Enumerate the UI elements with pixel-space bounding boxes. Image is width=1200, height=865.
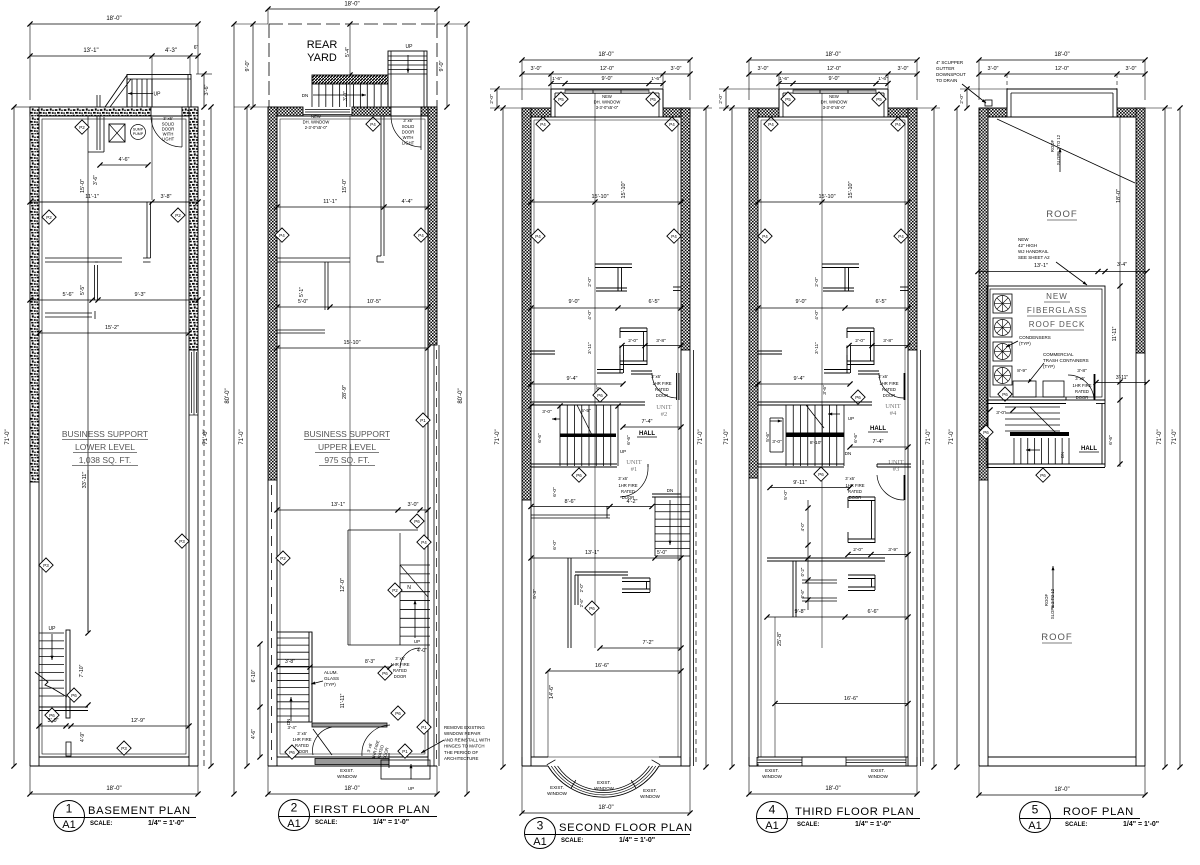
svg-text:18'-0": 18'-0" — [344, 2, 359, 8]
partition stub — [146, 202, 148, 258]
right dimension 71'-0" — [705, 108, 707, 767]
svg-text:15'-10": 15'-10" — [343, 340, 360, 346]
svg-text:9'-11": 9'-11" — [793, 480, 807, 486]
svg-text:13'-1": 13'-1" — [331, 502, 345, 508]
svg-text:WINDOW: WINDOW — [547, 791, 567, 796]
svg-text:P2: P2 — [392, 588, 398, 593]
svg-text:A1: A1 — [1028, 820, 1041, 832]
svg-text:P1: P1 — [402, 749, 408, 754]
svg-text:13'-1": 13'-1" — [83, 48, 98, 54]
svg-text:1,038 SQ. FT.: 1,038 SQ. FT. — [79, 455, 131, 465]
svg-text:9'-8": 9'-8" — [795, 609, 806, 615]
svg-text:NEW: NEW — [311, 114, 321, 119]
svg-text:71'-0": 71'-0" — [949, 429, 955, 444]
bottom windows — [757, 759, 802, 764]
title block BASEMENT PLAN — [54, 801, 197, 832]
svg-text:3'-0": 3'-0" — [542, 409, 552, 415]
svg-text:18'-0": 18'-0" — [344, 786, 359, 792]
svg-text:P6: P6 — [71, 693, 77, 698]
svg-text:5'-6": 5'-6" — [765, 432, 771, 442]
svg-text:P4: P4 — [762, 234, 768, 239]
svg-text:FIBERGLASS: FIBERGLASS — [1027, 306, 1087, 315]
partition vertical p4 — [792, 561, 794, 617]
svg-text:5'-0": 5'-0" — [657, 550, 667, 556]
svg-text:5'-1": 5'-1" — [299, 287, 305, 297]
svg-text:UP: UP — [620, 449, 626, 454]
svg-text:RATED: RATED — [882, 387, 896, 392]
svg-text:4: 4 — [769, 803, 776, 817]
svg-text:SCALE:: SCALE: — [315, 820, 337, 826]
svg-text:ROOF: ROOF — [1044, 594, 1049, 607]
right wall — [189, 107, 198, 350]
svg-text:UNIT: UNIT — [626, 459, 642, 466]
svg-text:ROOF DECK: ROOF DECK — [1029, 320, 1086, 329]
top wall hatched — [522, 108, 551, 117]
svg-text:UP: UP — [414, 639, 420, 644]
svg-text:WINDOW: WINDOW — [640, 794, 660, 799]
svg-text:A1: A1 — [533, 836, 546, 848]
svg-text:2'-0": 2'-0" — [853, 547, 863, 553]
center line — [821, 93, 823, 648]
svg-text:18'-0": 18'-0" — [598, 52, 613, 58]
sump pump closet — [109, 124, 125, 142]
svg-text:18'-0": 18'-0" — [598, 805, 613, 811]
svg-text:SCALE:: SCALE: — [561, 838, 583, 844]
svg-text:COMMERCIAL: COMMERCIAL — [1043, 352, 1074, 357]
svg-text:71'-0": 71'-0" — [5, 429, 11, 444]
svg-text:REAR: REAR — [307, 39, 338, 51]
svg-text:5'-6": 5'-6" — [63, 292, 74, 298]
svg-text:UPPER LEVEL: UPPER LEVEL — [318, 442, 376, 452]
svg-text:P2: P2 — [280, 556, 286, 561]
svg-text:3'-0": 3'-0" — [758, 66, 769, 72]
svg-text:N: N — [407, 585, 411, 591]
svg-text:3'-9": 3'-9" — [888, 547, 898, 553]
svg-text:6'-10": 6'-10" — [251, 669, 257, 682]
closet C — [847, 327, 874, 329]
svg-text:1HR FIRE: 1HR FIRE — [879, 381, 898, 386]
svg-text:SLOPE 2 TO 12: SLOPE 2 TO 12 — [1050, 588, 1055, 619]
svg-text:15'-0": 15'-0" — [80, 179, 86, 193]
svg-text:HALL: HALL — [639, 431, 655, 437]
svg-text:#2: #2 — [661, 411, 668, 418]
top wall hatched — [30, 107, 151, 116]
inner face — [988, 116, 1136, 118]
svg-text:DN: DN — [667, 488, 674, 493]
top wall hatched — [268, 107, 303, 116]
basement plan — [5, 16, 214, 797]
right wall hatched — [1136, 108, 1145, 353]
svg-text:GUTTER: GUTTER — [936, 66, 955, 71]
svg-text:12'-9": 12'-9" — [131, 718, 145, 724]
door arc top — [151, 116, 182, 147]
svg-text:P6: P6 — [983, 430, 989, 435]
inner wall line — [42, 119, 186, 754]
svg-text:3'-0": 3'-0" — [988, 66, 999, 72]
left dimension 71'-0" — [731, 108, 733, 767]
svg-text:WINDOW REPAIR: WINDOW REPAIR — [444, 731, 481, 736]
svg-text:RATED: RATED — [1075, 389, 1089, 394]
new window top — [305, 109, 350, 111]
title block ROOF PLAN — [1020, 802, 1160, 833]
svg-text:P4: P4 — [898, 234, 904, 239]
fire door upper — [858, 370, 879, 372]
dimension 2'-0" left — [496, 89, 498, 108]
svg-text:80'-0": 80'-0" — [225, 388, 231, 403]
svg-text:(TYP): (TYP) — [324, 682, 336, 687]
svg-text:3'-8": 3'-8" — [656, 338, 666, 344]
first floor plan — [225, 2, 490, 797]
svg-text:EXIST.: EXIST. — [597, 780, 611, 785]
svg-text:P2: P2 — [79, 125, 85, 130]
svg-text:1: 1 — [66, 802, 73, 816]
svg-text:3'-0": 3'-0" — [343, 91, 349, 101]
svg-text:18'-0": 18'-0" — [1054, 52, 1069, 58]
door right fire rotated — [362, 725, 390, 756]
svg-text:3'-0": 3'-0" — [772, 439, 782, 445]
door left fire — [313, 727, 332, 755]
svg-text:NEW: NEW — [602, 94, 612, 99]
svg-text:3'-6": 3'-6" — [204, 84, 210, 95]
svg-text:71'-0": 71'-0" — [1157, 429, 1163, 444]
svg-text:P6: P6 — [382, 671, 388, 676]
svg-text:3' x6': 3' x6' — [163, 116, 173, 121]
roof raised parapet — [1007, 88, 1117, 90]
hall stair — [1005, 406, 1060, 408]
door arc top — [391, 116, 421, 147]
svg-text:2'-0": 2'-0" — [579, 583, 584, 592]
svg-text:UNIT: UNIT — [885, 403, 901, 410]
svg-text:ROOF: ROOF — [1046, 209, 1077, 220]
lower roof slope arrow — [1052, 566, 1054, 608]
svg-text:2'-0": 2'-0" — [855, 338, 865, 344]
title block SECOND FLOOR PLAN — [525, 818, 693, 849]
svg-text:9'-4": 9'-4" — [794, 376, 805, 382]
svg-text:P4: P4 — [768, 122, 774, 127]
partition lower — [767, 557, 885, 559]
svg-text:11'-1": 11'-1" — [85, 194, 99, 200]
svg-text:P4: P4 — [540, 122, 546, 127]
svg-text:11'-11": 11'-11" — [1112, 326, 1118, 341]
svg-text:975 SQ. FT.: 975 SQ. FT. — [324, 455, 369, 465]
svg-text:P3: P3 — [121, 746, 127, 751]
svg-text:SCALE:: SCALE: — [90, 821, 112, 827]
svg-text:P3: P3 — [179, 539, 185, 544]
svg-text:71'-0": 71'-0" — [698, 429, 704, 444]
svg-text:3' x6': 3' x6' — [845, 476, 855, 481]
svg-text:ROOF PLAN: ROOF PLAN — [1063, 806, 1134, 818]
svg-text:18'-0": 18'-0" — [1116, 189, 1122, 203]
svg-text:HALL: HALL — [870, 426, 886, 432]
svg-text:6'-5": 6'-5" — [876, 299, 887, 305]
svg-text:RATED: RATED — [393, 668, 407, 673]
svg-text:3' x6': 3' x6' — [878, 374, 888, 379]
svg-text:PUMP: PUMP — [133, 132, 144, 136]
svg-text:28'-9": 28'-9" — [342, 385, 348, 399]
svg-text:6'-6": 6'-6" — [537, 433, 543, 443]
svg-text:4'-0": 4'-0" — [800, 522, 805, 531]
entry stair top — [127, 75, 191, 108]
left dimension 71'-0" — [502, 108, 504, 767]
svg-text:DH. WINDOW: DH. WINDOW — [821, 100, 848, 105]
svg-text:ALUM.: ALUM. — [324, 670, 338, 675]
stair hall — [559, 405, 561, 466]
hall top wall — [758, 401, 872, 403]
svg-text:EXIST.: EXIST. — [550, 785, 564, 790]
svg-text:3' x6': 3' x6' — [1075, 376, 1085, 381]
svg-text:UNIT: UNIT — [888, 459, 904, 466]
svg-text:3'-0": 3'-0" — [48, 718, 59, 724]
svg-text:16'-6": 16'-6" — [595, 663, 609, 669]
svg-text:9'-0": 9'-0" — [569, 299, 580, 305]
svg-text:3'-0": 3'-0" — [408, 502, 419, 508]
svg-text:4'-0": 4'-0" — [417, 648, 427, 654]
bottom wall — [749, 765, 917, 767]
svg-text:2-3'-0"x5'-0": 2-3'-0"x5'-0" — [305, 125, 328, 130]
svg-text:FIRST FLOOR PLAN: FIRST FLOOR PLAN — [313, 804, 430, 816]
svg-text:4'-9": 4'-9" — [80, 732, 86, 742]
closet C 3 — [848, 574, 875, 576]
svg-text:P6: P6 — [414, 519, 420, 524]
roof plan — [936, 52, 1183, 798]
svg-text:4'-0": 4'-0" — [814, 310, 820, 320]
title block FIRST FLOOR PLAN — [279, 800, 438, 831]
svg-text:12'-0": 12'-0" — [1055, 66, 1069, 72]
svg-text:WINDOW: WINDOW — [762, 774, 782, 779]
svg-text:7'-4": 7'-4" — [642, 419, 653, 425]
stair 2 down — [652, 493, 681, 495]
svg-text:P6: P6 — [289, 750, 295, 755]
counter 2 — [277, 329, 325, 331]
svg-text:2'-0": 2'-0" — [814, 277, 820, 287]
svg-text:3'-0": 3'-0" — [531, 66, 542, 72]
svg-text:1'-6": 1'-6" — [878, 76, 888, 82]
svg-text:HINGES TO MATCH: HINGES TO MATCH — [444, 744, 485, 749]
svg-text:DOOR: DOOR — [394, 674, 407, 679]
svg-text:P3: P3 — [43, 563, 49, 568]
svg-text:NEW: NEW — [1018, 237, 1029, 242]
svg-text:P4: P4 — [895, 122, 901, 127]
svg-text:3'-0": 3'-0" — [671, 66, 682, 72]
svg-text:A1: A1 — [62, 819, 75, 831]
svg-text:5'-5": 5'-5" — [581, 408, 591, 414]
dashed property line — [203, 120, 205, 766]
svg-text:2'-6": 2'-6" — [579, 598, 584, 607]
svg-text:EXIST.: EXIST. — [871, 768, 885, 773]
dimension 9'-0" left — [252, 24, 254, 107]
svg-text:9'-0": 9'-0" — [829, 76, 840, 82]
svg-text:1/4" = 1'-0": 1/4" = 1'-0" — [148, 820, 184, 827]
roof slope diagonal — [997, 119, 1135, 183]
svg-text:12'-0": 12'-0" — [340, 578, 346, 592]
wall stub — [66, 742, 71, 756]
second floor plan — [489, 52, 712, 816]
svg-text:4'-6": 4'-6" — [119, 157, 130, 163]
svg-text:AND REINSTALL WITH: AND REINSTALL WITH — [444, 737, 490, 742]
dimension 9'-0" right — [446, 24, 448, 107]
svg-text:DN: DN — [1060, 452, 1065, 458]
stair walls — [348, 529, 418, 531]
hall bottom wall — [531, 463, 617, 465]
left wall hatched — [522, 108, 531, 500]
third floor plan — [718, 52, 940, 797]
svg-text:REMOVE EXISTING: REMOVE EXISTING — [444, 725, 485, 730]
svg-text:15'-2": 15'-2" — [105, 325, 119, 331]
svg-text:SCALE:: SCALE: — [1065, 822, 1087, 828]
svg-text:6'-5": 6'-5" — [649, 299, 660, 305]
svg-text:UP: UP — [848, 416, 854, 421]
svg-text:6'-6": 6'-6" — [853, 433, 859, 443]
svg-text:5'-5": 5'-5" — [80, 285, 86, 295]
svg-text:RATED: RATED — [848, 489, 862, 494]
svg-text:3' x6': 3' x6' — [297, 731, 307, 736]
svg-text:P6: P6 — [818, 472, 824, 477]
svg-text:18'-0": 18'-0" — [106, 16, 121, 22]
svg-text:5'-0": 5'-0" — [783, 490, 789, 500]
svg-text:11'-11": 11'-11" — [340, 693, 346, 708]
svg-text:8'-9": 8'-9" — [1017, 368, 1027, 374]
svg-text:71'-0": 71'-0" — [495, 429, 501, 444]
svg-text:1/4" = 1'-0": 1/4" = 1'-0" — [619, 837, 655, 844]
svg-text:BASEMENT PLAN: BASEMENT PLAN — [88, 805, 191, 817]
trash containers — [1013, 381, 1036, 397]
bottom wall — [268, 765, 437, 767]
svg-text:(TYP): (TYP) — [1019, 341, 1031, 346]
svg-text:DH. WINDOW: DH. WINDOW — [594, 100, 621, 105]
svg-text:WITH: WITH — [403, 135, 414, 140]
fire door mid — [631, 370, 652, 372]
right wall hatched — [908, 108, 917, 350]
stoop stair — [312, 75, 388, 84]
svg-text:15'-10": 15'-10" — [591, 194, 608, 200]
svg-text:6'-0": 6'-0" — [552, 487, 558, 497]
svg-text:7'-2": 7'-2" — [643, 640, 654, 646]
svg-text:#1: #1 — [631, 466, 638, 473]
svg-text:DN: DN — [845, 451, 852, 456]
svg-text:8'-3": 8'-3" — [365, 659, 375, 665]
inner face — [758, 116, 908, 118]
svg-text:1/4" = 1'-0": 1/4" = 1'-0" — [1123, 821, 1159, 828]
svg-text:1HR FIRE: 1HR FIRE — [652, 381, 671, 386]
svg-text:2'-0": 2'-0" — [718, 94, 724, 104]
left dimension 71'-0" — [246, 107, 248, 766]
svg-text:DH. WINDOW: DH. WINDOW — [303, 120, 330, 125]
svg-text:3' x6': 3' x6' — [395, 656, 405, 661]
svg-text:4'-6": 4'-6" — [251, 729, 257, 739]
party wall step — [693, 350, 695, 766]
svg-text:A1: A1 — [287, 818, 300, 830]
svg-text:THE PERIOD OF: THE PERIOD OF — [444, 750, 478, 755]
svg-text:3'-8": 3'-8" — [1077, 368, 1087, 374]
right dimension 71'-0" — [1164, 108, 1166, 767]
svg-text:P2: P2 — [46, 215, 52, 220]
svg-text:1HR FIRE: 1HR FIRE — [390, 662, 409, 667]
svg-text:12'-0": 12'-0" — [600, 66, 614, 72]
svg-text:1HR FIRE: 1HR FIRE — [618, 483, 637, 488]
svg-text:3'-11": 3'-11" — [814, 342, 820, 354]
svg-text:8'-10": 8'-10" — [810, 440, 823, 446]
svg-text:3'-8": 3'-8" — [883, 338, 893, 344]
svg-text:SOLID: SOLID — [402, 124, 415, 129]
svg-text:3'-4": 3'-4" — [1117, 262, 1127, 268]
svg-text:14'-6": 14'-6" — [549, 685, 555, 699]
svg-text:TO DRAIN: TO DRAIN — [936, 78, 957, 83]
svg-text:3-3'-0"x5'-0": 3-3'-0"x5'-0" — [823, 105, 846, 110]
svg-text:UP: UP — [154, 92, 162, 98]
svg-text:18'-0": 18'-0" — [825, 52, 840, 58]
deck door — [1065, 397, 1067, 400]
closet C 2 — [622, 577, 650, 579]
svg-text:UP: UP — [49, 626, 57, 632]
shelf lines 2 — [45, 312, 92, 314]
left wall hatched — [268, 107, 277, 480]
shelf lines — [45, 257, 122, 259]
svg-text:9'-0": 9'-0" — [439, 60, 445, 71]
party wall step — [920, 350, 922, 766]
svg-text:THIRD FLOOR PLAN: THIRD FLOOR PLAN — [795, 806, 914, 818]
svg-text:P6: P6 — [597, 393, 603, 398]
svg-text:ARCHITECTURE: ARCHITECTURE — [444, 756, 478, 761]
svg-text:6'-6": 6'-6" — [868, 609, 879, 615]
far right dimension — [1179, 108, 1181, 767]
left dimension 71'-0" — [956, 108, 958, 767]
svg-text:EXIST.: EXIST. — [340, 768, 354, 773]
right wall hatched — [428, 107, 437, 345]
svg-text:18'-0": 18'-0" — [825, 786, 840, 792]
bottom wall exist window — [315, 759, 389, 765]
stair main down — [277, 632, 312, 722]
svg-text:P5: P5 — [785, 97, 791, 102]
left dimension 71'-0" — [13, 107, 15, 766]
svg-text:BUSINESS SUPPORT: BUSINESS SUPPORT — [62, 429, 148, 439]
svg-text:DOOR: DOOR — [656, 393, 669, 398]
scupper — [985, 100, 992, 106]
center line — [349, 116, 351, 645]
ramp diagonal — [105, 75, 128, 108]
hall walls mid — [531, 350, 555, 352]
left dimension 80'-0" — [233, 24, 235, 794]
svg-text:1/4" = 1'-0": 1/4" = 1'-0" — [373, 819, 409, 826]
svg-text:15'-10": 15'-10" — [848, 181, 854, 198]
svg-text:P4: P4 — [671, 234, 677, 239]
right dimension 71'-0" — [933, 108, 935, 767]
svg-text:15'-10": 15'-10" — [621, 181, 627, 198]
svg-text:15'-0": 15'-0" — [342, 179, 348, 193]
svg-text:42" HIGH: 42" HIGH — [1018, 243, 1037, 248]
svg-text:6'-6": 6'-6" — [626, 435, 632, 445]
svg-text:1HR FIRE: 1HR FIRE — [292, 737, 311, 742]
svg-text:9'-0": 9'-0" — [796, 299, 807, 305]
svg-text:CONDENSERS: CONDENSERS — [1019, 335, 1051, 340]
svg-text:3'-8": 3'-8" — [161, 194, 172, 200]
svg-text:DN: DN — [302, 93, 309, 98]
kitchen walls 2 — [575, 571, 628, 573]
svg-text:1'-6": 1'-6" — [651, 76, 661, 82]
svg-text:2'-0": 2'-0" — [959, 94, 965, 104]
center line — [594, 93, 596, 648]
left wall hatched — [979, 108, 988, 480]
svg-text:P2: P2 — [175, 213, 181, 218]
svg-text:8'-6": 8'-6" — [565, 499, 576, 505]
svg-text:5: 5 — [1032, 803, 1039, 817]
bath walls — [595, 263, 632, 265]
svg-text:NEW: NEW — [829, 94, 839, 99]
landing edge — [39, 706, 88, 708]
hall top wall — [531, 401, 645, 403]
svg-text:5'-3": 5'-3" — [532, 589, 538, 599]
svg-text:P1: P1 — [421, 725, 427, 730]
svg-text:18'-0": 18'-0" — [106, 786, 121, 792]
